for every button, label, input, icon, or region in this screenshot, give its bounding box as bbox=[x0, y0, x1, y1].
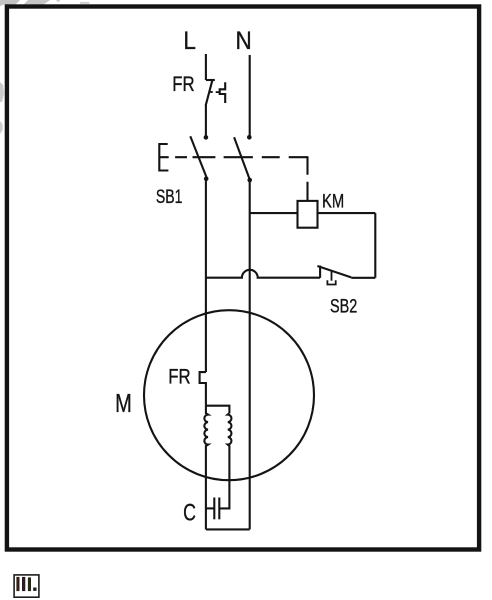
SB1 pole 1 blade bbox=[190, 136, 207, 178]
contact FR blade bbox=[206, 79, 213, 106]
heater FR element jog bbox=[200, 372, 206, 406]
FR thermal element bbox=[220, 82, 226, 103]
SB2 left terminal stub bbox=[319, 266, 321, 278]
SB1 operator bracket bbox=[159, 144, 168, 171]
wire L drop bbox=[205, 54, 207, 80]
winding top link bbox=[206, 406, 230, 414]
wire SB2 to right vertical bbox=[351, 277, 375, 279]
wire N to KM bbox=[250, 212, 298, 214]
FR link dash 2 bbox=[216, 91, 220, 93]
aux winding coil bbox=[219, 413, 231, 508]
svg-text:SB2: SB2 bbox=[330, 296, 357, 317]
capacitor plate left bbox=[213, 498, 215, 520]
coil KM box bbox=[298, 201, 318, 228]
svg-text:M: M bbox=[115, 388, 132, 417]
wire L branch vertical bbox=[205, 179, 207, 372]
wire right vertical bbox=[374, 213, 376, 278]
SB1 pole 1 top terminal dot bbox=[204, 135, 209, 140]
svg-text:SB1: SB1 bbox=[156, 186, 183, 208]
watermark stripe B bbox=[24, 0, 50, 5]
svg-text:FR: FR bbox=[172, 74, 194, 97]
motor circle bbox=[144, 310, 314, 480]
SB2 actuator cap bbox=[327, 280, 335, 284]
page marker III. icon bbox=[14, 575, 39, 597]
SB2 blade bbox=[317, 266, 351, 277]
SB1 pole 2 top terminal dot bbox=[247, 135, 252, 140]
contact FR lower wire bbox=[205, 105, 207, 137]
svg-text:L: L bbox=[183, 27, 196, 55]
capacitor plate right bbox=[218, 498, 220, 520]
wire control with hop bbox=[206, 270, 320, 278]
watermark stripe A bbox=[0, 0, 20, 6]
SB1 pole 2 blade bbox=[234, 137, 250, 180]
wire KM to right bbox=[318, 212, 376, 214]
watermark dash bbox=[80, 2, 90, 4]
watermark blob 1 bbox=[0, 82, 4, 102]
watermark stripe C bbox=[56, 0, 61, 3]
watermark blob 2 bbox=[0, 121, 3, 134]
contact FR top tick bbox=[206, 79, 215, 81]
SB1 pole 2 pivot dot bbox=[247, 178, 252, 183]
svg-text:N: N bbox=[236, 27, 252, 55]
wire N branch vertical bbox=[249, 180, 251, 529]
wire bottom link bbox=[206, 528, 250, 530]
svg-text:C: C bbox=[183, 500, 196, 526]
capacitor left lead bbox=[206, 507, 214, 509]
svg-text:FR: FR bbox=[168, 366, 190, 389]
FR link dash 1 bbox=[209, 91, 213, 93]
main winding coil bbox=[204, 406, 208, 530]
wire N drop bbox=[249, 55, 251, 137]
SB2 actuator stem bbox=[331, 272, 333, 281]
SB1 linkage dashed horizontal bbox=[159, 156, 307, 158]
svg-text:KM: KM bbox=[322, 191, 344, 212]
SB1 linkage dashed vertical bbox=[306, 156, 308, 201]
SB1 pole 1 pivot dot bbox=[204, 177, 209, 182]
